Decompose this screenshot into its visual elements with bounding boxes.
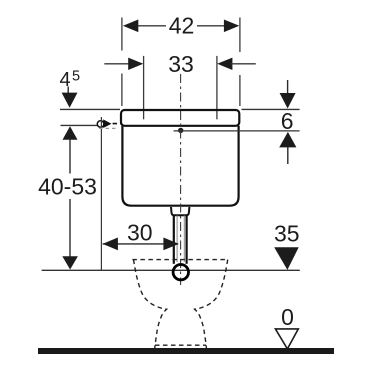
dimension 40-53 up arrow bbox=[63, 126, 78, 140]
cistern lid bbox=[121, 110, 239, 126]
dimension 42 left arrow bbox=[123, 20, 138, 33]
dimension 6 lower line bbox=[287, 147, 289, 164]
svg-text:5: 5 bbox=[72, 69, 80, 85]
dimension 42 left extension line lower bbox=[121, 74, 123, 107]
supply line left bbox=[61, 124, 98, 126]
connection level line right bbox=[174, 130, 300, 132]
dimension 33 left extension line bbox=[143, 56, 145, 119]
supply connection arrow bbox=[103, 119, 111, 128]
dimension 45 down arrow bbox=[62, 93, 78, 108]
dimension 42 line left segment bbox=[137, 25, 166, 27]
svg-text:4: 4 bbox=[60, 69, 71, 91]
toilet bowl dashed left side bbox=[134, 260, 167, 348]
toilet bowl dashed top line bbox=[132, 259, 227, 261]
dimension 6 upper line bbox=[287, 80, 289, 94]
lid-top level line left bbox=[60, 108, 120, 110]
svg-text:33: 33 bbox=[168, 51, 194, 77]
dimension 6 down arrow bbox=[280, 93, 296, 109]
bowl rim level line bbox=[42, 269, 300, 271]
flush pipe inner bore right bbox=[183, 215, 185, 262]
dimension 6 up arrow bbox=[279, 132, 296, 148]
floor bar bbox=[38, 348, 334, 354]
dimension 30 line bbox=[103, 243, 178, 245]
supply connection circle bbox=[97, 121, 104, 128]
dimension 40-53 line lower bbox=[69, 199, 71, 257]
cistern body bbox=[122, 126, 238, 206]
centerline bbox=[180, 74, 182, 285]
datum triangle bbox=[275, 329, 298, 349]
dimension 42 right extension line upper bbox=[239, 18, 241, 53]
dimension 33 right extension line bbox=[216, 56, 218, 119]
svg-text:0: 0 bbox=[281, 304, 294, 330]
toilet bowl dashed right side bbox=[195, 260, 228, 348]
supply connection vertical line bbox=[100, 117, 102, 270]
dimension 40-53 line upper bbox=[69, 139, 71, 174]
dimension 33 right tail line bbox=[231, 63, 256, 65]
dimension 42 left extension line upper bbox=[121, 18, 123, 51]
supply dashed line into tank bbox=[113, 123, 122, 125]
dimension 33 right arrow bbox=[217, 58, 232, 70]
dimension 42 right extension line lower bbox=[239, 75, 241, 106]
svg-text:6: 6 bbox=[281, 108, 294, 134]
lid-top level line right bbox=[242, 108, 300, 110]
flush pipe collar bbox=[171, 207, 189, 215]
dimension 42 line right segment bbox=[197, 25, 225, 27]
dimension 40-53 down arrow bbox=[62, 256, 78, 269]
dimension 45 arrow stub bbox=[67, 87, 69, 94]
dimension 30 right arrow bbox=[163, 238, 178, 251]
svg-text:42: 42 bbox=[169, 13, 195, 39]
dimension 42 right arrow bbox=[224, 20, 239, 33]
flush bend circle bbox=[173, 265, 188, 280]
flush pipe left wall bbox=[173, 215, 175, 263]
svg-text:35: 35 bbox=[274, 221, 300, 247]
supply dashed option line lower bbox=[99, 127, 116, 129]
dimension 35 down arrow bbox=[274, 247, 299, 270]
svg-text:40-53: 40-53 bbox=[38, 173, 97, 199]
dimension 33 left tail line bbox=[104, 63, 130, 65]
flush valve dot bbox=[178, 128, 183, 133]
toilet bowl dashed base bbox=[155, 344, 206, 346]
flush pipe inner bore left bbox=[176, 215, 178, 262]
svg-text:30: 30 bbox=[127, 220, 153, 246]
dimension 30 left arrow bbox=[103, 238, 118, 251]
flush pipe right wall bbox=[186, 215, 188, 263]
dimension 33 left arrow bbox=[128, 58, 143, 70]
